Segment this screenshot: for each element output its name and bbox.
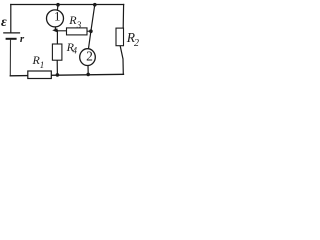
resistor R4 body — [52, 44, 62, 60]
wire node A to R3 — [56, 30, 68, 32]
junction dot top of meter 1 — [56, 3, 60, 7]
wire top — [11, 4, 124, 6]
svg-text:4: 4 — [73, 46, 78, 56]
wire below R2 to bottom — [120, 46, 123, 74]
svg-text:1: 1 — [54, 9, 61, 24]
wire middle branch (top wire to voltmeter 2, slanted) — [88, 5, 94, 50]
wire node A to R4 — [56, 30, 58, 44]
wire R3 right to node B — [87, 30, 91, 32]
battery cell short plate — [7, 38, 16, 40]
resistor R1 body — [28, 71, 52, 79]
ammeter circle 1 — [47, 10, 64, 27]
wire left lower (battery bottom lead) — [9, 40, 11, 76]
wire right upper (to R2) — [122, 5, 124, 29]
svg-text:r: r — [20, 33, 25, 45]
junction dot bottom of meter 2 — [86, 73, 90, 77]
battery cell long plate — [4, 32, 20, 34]
wire below R4 — [56, 60, 58, 75]
resistor R3 body — [67, 28, 88, 35]
voltmeter circle 2 — [80, 49, 96, 66]
svg-text:1: 1 — [40, 60, 45, 70]
svg-text:2: 2 — [86, 48, 93, 63]
svg-text:3: 3 — [76, 20, 82, 30]
resistor R2 body — [116, 28, 124, 46]
junction dot bottom of R4 — [56, 73, 60, 77]
wire left upper (battery top lead) — [10, 5, 12, 33]
junction dot top of middle branch — [93, 3, 97, 7]
svg-text:2: 2 — [134, 38, 139, 49]
wire stub through ammeter 1 — [55, 5, 58, 30]
junction dot node B (R3 right) — [89, 29, 93, 33]
svg-text:ε: ε — [1, 15, 7, 30]
wire bottom — [10, 74, 123, 76]
junction node A below meter 1 (arrow blob) — [52, 28, 57, 32]
wire below voltmeter 2 — [87, 65, 89, 75]
